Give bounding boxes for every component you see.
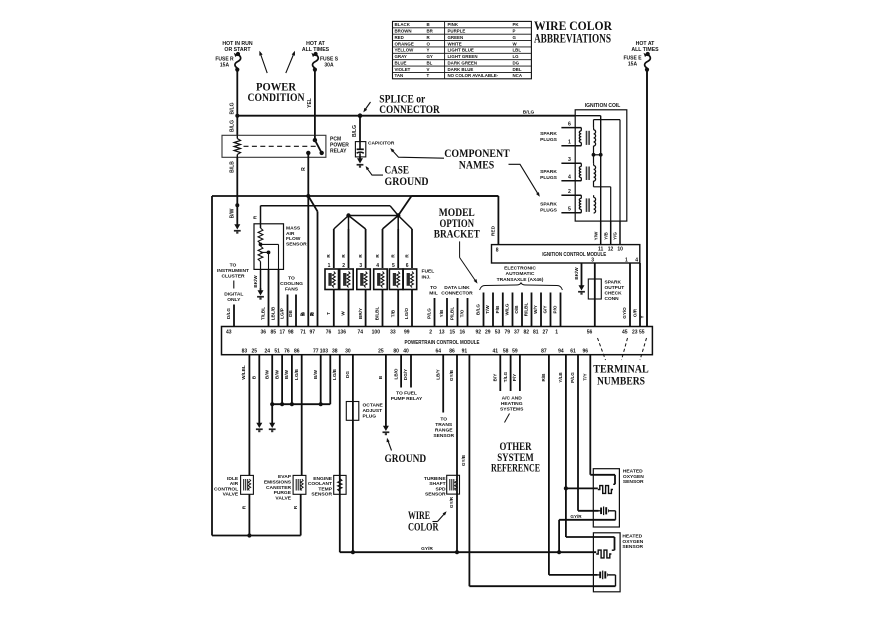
svg-text:25: 25 [378, 348, 384, 354]
wire B/W pin 77 [313, 355, 323, 407]
wires electronic automatic transaxle [484, 293, 561, 327]
svg-text:PLUGS: PLUGS [540, 208, 558, 214]
svg-text:4: 4 [568, 175, 571, 181]
svg-text:SENSOR: SENSOR [622, 544, 643, 550]
octane adjust plug [346, 402, 383, 421]
svg-text:98: 98 [288, 330, 294, 336]
bracket outline top rail [212, 196, 498, 536]
svg-text:BK/W: BK/W [253, 275, 258, 288]
svg-text:VALVE: VALVE [275, 495, 291, 501]
svg-text:6: 6 [406, 263, 409, 269]
coil winding unit 2 [579, 163, 595, 181]
spark plug stubs pins 3/4 [561, 157, 581, 181]
relay K1 PCM POWER RELAY [222, 135, 349, 157]
svg-text:BROWN: BROWN [395, 29, 412, 34]
svg-text:TEMP: TEMP [318, 486, 332, 492]
svg-text:SYSTEMS: SYSTEMS [500, 406, 524, 412]
svg-text:29: 29 [485, 330, 491, 336]
svg-text:GROUND: GROUND [385, 176, 429, 188]
svg-text:81: 81 [533, 330, 539, 336]
svg-text:T/W: T/W [485, 305, 490, 314]
svg-text:96: 96 [583, 348, 589, 354]
svg-text:GY/R: GY/R [449, 496, 454, 508]
svg-text:27: 27 [542, 330, 548, 336]
label A/C AND HEATING SYSTEMS [500, 395, 524, 422]
svg-text:41: 41 [493, 348, 499, 354]
svg-text:TO FUEL: TO FUEL [396, 390, 417, 396]
svg-text:OXYGEN: OXYGEN [622, 539, 643, 545]
svg-text:Y/B: Y/B [439, 309, 444, 317]
svg-text:LBL: LBL [513, 48, 522, 53]
svg-text:PLUG: PLUG [363, 414, 377, 420]
wires to data link connector [435, 298, 468, 327]
fuel injector 2 [340, 229, 354, 327]
svg-text:CHECK: CHECK [605, 291, 623, 297]
wire T/LBL MAF to PCM pin 36 [268, 269, 270, 326]
svg-text:DATA LINK: DATA LINK [444, 285, 470, 291]
svg-text:R/LBL: R/LBL [524, 303, 529, 317]
svg-text:LB/O: LB/O [393, 368, 398, 379]
wire YEL fuse S down to relay [307, 71, 315, 135]
wire color abbreviation table [393, 21, 532, 78]
svg-text:CANISTER: CANISTER [266, 485, 291, 491]
svg-text:FANS: FANS [285, 287, 299, 293]
svg-text:43: 43 [226, 330, 232, 336]
svg-text:ELECTRONIC: ELECTRONIC [504, 266, 536, 272]
svg-text:DB: DB [288, 310, 293, 317]
svg-text:Y: Y [427, 48, 430, 53]
svg-text:OUTPUT: OUTPUT [605, 285, 625, 291]
svg-text:LG/O: LG/O [404, 307, 409, 319]
svg-text:4: 4 [376, 263, 379, 269]
svg-text:86: 86 [449, 348, 455, 354]
junction R wire at bracket top [306, 194, 310, 198]
svg-text:GY/O: GY/O [622, 307, 627, 319]
svg-text:LG/B: LG/B [294, 368, 299, 380]
spark output check connector [588, 279, 624, 302]
fuel injector 3 [357, 229, 371, 327]
fuel injector 6 [403, 229, 417, 327]
wire DB to PCM pin 98 [295, 295, 297, 327]
svg-text:CONDITION: CONDITION [248, 92, 306, 104]
svg-text:TERMINAL: TERMINAL [593, 364, 649, 376]
svg-text:BK/W: BK/W [574, 267, 579, 280]
svg-text:56: 56 [587, 330, 593, 336]
svg-text:71: 71 [300, 330, 306, 336]
svg-text:WIRE: WIRE [408, 510, 430, 522]
svg-text:92: 92 [475, 330, 481, 336]
svg-text:O: O [427, 41, 431, 46]
junction injector supply B [396, 213, 400, 217]
svg-text:B/LG: B/LG [230, 120, 236, 132]
label TO TRANS RANGE SENSOR [433, 417, 454, 440]
svg-text:GY/R: GY/R [421, 546, 433, 552]
wire B/W pin 76 [284, 355, 294, 407]
fuel injector 5 [389, 229, 403, 327]
svg-text:2: 2 [342, 263, 345, 269]
svg-text:YELLOW: YELLOW [395, 48, 415, 53]
svg-text:MASS: MASS [286, 226, 301, 232]
svg-text:TURBINE: TURBINE [424, 476, 446, 482]
svg-text:Y/B: Y/B [603, 231, 608, 239]
wire R relay output down to PCM pin 71 [300, 153, 308, 327]
heated oxygen sensor 2 (rear) [593, 533, 643, 592]
svg-text:3: 3 [568, 157, 571, 163]
svg-text:24: 24 [264, 348, 270, 354]
svg-text:NO COLOR AVAILABLE-: NO COLOR AVAILABLE- [448, 73, 499, 78]
svg-text:GREEN: GREEN [448, 35, 464, 40]
svg-text:T: T [326, 312, 331, 315]
svg-text:PK: PK [513, 22, 520, 27]
svg-text:Y/W: Y/W [593, 231, 598, 240]
svg-text:30A: 30A [324, 63, 334, 69]
svg-text:TO: TO [230, 263, 237, 269]
svg-text:P: P [513, 29, 516, 34]
svg-text:B/W: B/W [264, 369, 269, 379]
ground below relay coil [236, 222, 238, 226]
wire BK/W ICM case ground [574, 263, 582, 283]
engine coolant temp sensor [308, 475, 346, 497]
svg-text:2: 2 [568, 189, 571, 195]
svg-text:EVAP: EVAP [278, 474, 292, 480]
svg-text:CAPICITOR: CAPICITOR [368, 141, 395, 147]
svg-text:DARK GREEN: DARK GREEN [448, 60, 478, 65]
svg-text:B/LBL: B/LBL [375, 307, 380, 321]
wire GY/B pin 86b through turbine speed sensor [449, 355, 457, 553]
svg-text:ENGINE: ENGINE [313, 476, 332, 482]
fuse E 15A [623, 52, 650, 72]
wire GY/R HO2S1 return to rail [559, 511, 615, 552]
svg-text:RED: RED [491, 225, 497, 236]
wire branch to PCM pin 97 [308, 196, 317, 327]
svg-text:ALL TIMES: ALL TIMES [631, 47, 659, 53]
wires B/Y T/LG P/Y pins 41 58 59 to A/C [493, 355, 520, 391]
svg-text:YEL: YEL [307, 98, 313, 108]
svg-text:P/Y: P/Y [512, 374, 517, 381]
svg-text:16: 16 [459, 330, 465, 336]
svg-text:W: W [341, 311, 346, 316]
label HOT AT ALL TIMES (right) [631, 41, 659, 53]
svg-text:LB/Y: LB/Y [435, 369, 440, 379]
svg-text:NUMBERS: NUMBERS [597, 376, 645, 388]
turbine shaft speed sensor [424, 475, 460, 497]
svg-text:SENSOR: SENSOR [425, 492, 446, 498]
svg-text:GY/B: GY/B [449, 369, 454, 381]
label GROUND with leader [385, 437, 427, 465]
svg-text:W/Y: W/Y [533, 305, 538, 314]
svg-text:B/LG: B/LG [230, 102, 236, 114]
wire R/B pin 87 to HO2S2 sense [541, 355, 598, 575]
label COMPONENT NAMES [444, 148, 510, 172]
wire DG pin 30 through octane plug [345, 355, 353, 553]
junction injector supply A [346, 213, 350, 217]
label HOT IN RUN OR START [222, 41, 253, 53]
label TO COOLING FANS [280, 276, 303, 293]
svg-text:SHAFT: SHAFT [429, 481, 445, 487]
svg-text:GY/B: GY/B [461, 454, 466, 466]
svg-text:G/Y: G/Y [543, 306, 548, 314]
svg-text:GRAY: GRAY [395, 54, 407, 59]
svg-text:12: 12 [608, 247, 614, 253]
wire LG/B pin 86 to evap purge valve [294, 355, 302, 476]
svg-text:30: 30 [345, 348, 351, 354]
label ELECTRONIC AUTOMATIC TRANSAXLE (AX46) [497, 266, 544, 283]
svg-text:W/LBL: W/LBL [241, 365, 246, 380]
title WIRE COLOR ABBREVIATIONS [534, 19, 613, 46]
svg-text:83: 83 [242, 348, 248, 354]
capacitor C1 [352, 116, 395, 157]
wire O/R ICM pin 4 to PCM pin 23 [633, 263, 641, 327]
wire LB/Y pin 64 to trans range sensor [435, 355, 443, 413]
svg-text:T/LBL: T/LBL [261, 307, 266, 320]
svg-text:1: 1 [625, 257, 628, 263]
brace over transaxle wires [480, 283, 563, 291]
svg-text:RELAY: RELAY [330, 149, 347, 155]
svg-text:6: 6 [568, 121, 571, 127]
svg-text:COLOR: COLOR [408, 522, 439, 534]
svg-text:B/LG: B/LG [352, 125, 358, 137]
svg-text:1: 1 [555, 330, 558, 336]
svg-text:SENSOR: SENSOR [623, 479, 644, 485]
svg-text:P/LG: P/LG [427, 308, 432, 319]
spark plug stubs pins 6/1 [561, 121, 581, 145]
ground below ICM [581, 283, 583, 287]
supply rail to injectors [261, 206, 399, 216]
svg-text:TAN: TAN [395, 73, 404, 78]
label POWER CONDITION [248, 82, 306, 104]
svg-text:SENSOR: SENSOR [433, 433, 454, 439]
svg-text:76: 76 [326, 330, 332, 336]
svg-text:B/LB: B/LB [230, 161, 236, 173]
svg-text:TO: TO [440, 417, 447, 423]
svg-text:CONTROL: CONTROL [214, 486, 238, 492]
fuel injector 1 [325, 229, 339, 327]
svg-text:NAMES: NAMES [459, 159, 495, 171]
svg-text:AUTOMATIC: AUTOMATIC [506, 271, 535, 277]
svg-text:D/LG: D/LG [226, 308, 231, 319]
svg-text:VALVE: VALVE [223, 492, 239, 498]
svg-text:DARK BLUE: DARK BLUE [448, 67, 474, 72]
svg-text:R/B: R/B [541, 373, 546, 382]
svg-text:PINK: PINK [448, 22, 459, 27]
wire GY/B pin 91 to rear oxygen sensor [461, 355, 469, 587]
svg-text:RANGE: RANGE [435, 428, 453, 434]
svg-text:94: 94 [558, 348, 564, 354]
svg-text:P/LG: P/LG [570, 372, 575, 383]
wire LBL/B MAF to PCM pin 85 [278, 269, 280, 326]
svg-text:BL: BL [427, 60, 433, 65]
svg-text:FUEL: FUEL [422, 269, 435, 275]
svg-text:R: R [253, 215, 259, 219]
case ground symbol under capacitor [359, 157, 361, 160]
svg-text:91: 91 [462, 348, 468, 354]
svg-text:SPARK: SPARK [540, 202, 557, 208]
svg-text:DBL: DBL [513, 67, 522, 72]
label CASE GROUND [364, 164, 428, 188]
mass air flow sensor B1 [253, 206, 308, 270]
svg-text:R: R [301, 167, 307, 171]
svg-text:SPARK: SPARK [540, 131, 557, 137]
fuse S 30A [310, 52, 339, 72]
ignition control module U2 [492, 245, 640, 264]
svg-text:ORANGE: ORANGE [395, 41, 414, 46]
svg-text:3: 3 [591, 257, 594, 263]
svg-text:O/B: O/B [514, 305, 519, 314]
wire D/LG to PCM pin 43 [233, 305, 235, 327]
svg-text:P/LBL: P/LBL [450, 307, 455, 320]
svg-text:B/W: B/W [274, 369, 279, 379]
svg-text:IGNITION COIL: IGNITION COIL [585, 103, 621, 109]
svg-text:T/Y: T/Y [583, 373, 588, 380]
svg-text:WHITE: WHITE [448, 41, 462, 46]
svg-text:13: 13 [439, 330, 445, 336]
svg-text:GY/R: GY/R [570, 514, 582, 519]
PCM bottom pin numbers [242, 348, 589, 354]
label SPARK PLUGS x3 [540, 131, 558, 214]
svg-text:86: 86 [294, 348, 300, 354]
svg-text:ADJUST: ADJUST [363, 408, 383, 414]
svg-text:1: 1 [568, 140, 571, 146]
label WIRE COLOR with leader [408, 510, 448, 534]
label FUEL INJ. [422, 269, 435, 281]
ground tie rail [272, 403, 330, 405]
svg-text:LG/B: LG/B [332, 368, 337, 380]
svg-text:TRANS: TRANS [435, 422, 453, 428]
wire P/LG pin 61 to HO2S1 sense [570, 355, 598, 511]
svg-text:TRANSAXLE (AX46): TRANSAXLE (AX46) [497, 277, 544, 283]
svg-text:SPARK: SPARK [605, 280, 622, 286]
svg-text:INJ.: INJ. [422, 274, 432, 280]
svg-text:POWERTRAIN CONTROL MODULE: POWERTRAIN CONTROL MODULE [405, 340, 481, 346]
svg-text:17: 17 [279, 330, 285, 336]
svg-text:LIGHT BLUE: LIGHT BLUE [448, 48, 474, 53]
svg-text:BR/Y: BR/Y [358, 308, 363, 319]
svg-text:58: 58 [503, 348, 509, 354]
svg-text:CONN: CONN [605, 296, 620, 302]
svg-text:AIR: AIR [286, 231, 295, 237]
svg-text:GY: GY [427, 54, 433, 59]
wire B/LG fuse R down to relay [230, 71, 238, 135]
svg-text:Y/G: Y/G [613, 232, 618, 240]
svg-text:11: 11 [598, 247, 604, 253]
svg-text:G: G [513, 35, 517, 40]
wire HO2S2 return to pin 91 [469, 575, 615, 586]
wire GY/R ground rail to oxygen sensors [340, 546, 596, 554]
svg-text:Y/LB: Y/LB [558, 372, 563, 383]
svg-text:10: 10 [617, 247, 623, 253]
svg-text:LG/P: LG/P [280, 308, 285, 319]
svg-text:BLUE: BLUE [395, 60, 407, 65]
svg-text:P/B: P/B [495, 305, 500, 313]
svg-text:100: 100 [372, 330, 381, 336]
svg-text:SPD: SPD [436, 486, 447, 492]
svg-text:BR: BR [427, 29, 434, 34]
svg-text:VIOLET: VIOLET [395, 67, 411, 72]
wire W/LBL pin 83 to idle air control valve [241, 355, 249, 476]
wire ICM pin 3 to PCM pin 56 [594, 263, 596, 327]
svg-text:PLUGS: PLUGS [540, 137, 558, 143]
label TO FUEL PUMP RELAY [391, 390, 423, 402]
svg-text:SPARK: SPARK [540, 169, 557, 175]
svg-text:TO: TO [430, 285, 437, 291]
svg-text:COMPONENT: COMPONENT [444, 148, 510, 160]
svg-text:COOLING: COOLING [280, 281, 303, 287]
svg-text:B: B [427, 22, 430, 27]
svg-text:BRACKET: BRACKET [434, 229, 480, 241]
svg-text:TO: TO [288, 276, 295, 282]
svg-text:136: 136 [338, 330, 347, 336]
svg-text:B/LG: B/LG [476, 304, 481, 315]
svg-text:B/LG: B/LG [523, 110, 535, 116]
svg-text:IGNITION CONTROL MODULE: IGNITION CONTROL MODULE [542, 252, 607, 258]
svg-text:T/B: T/B [390, 309, 395, 317]
svg-text:33: 33 [390, 330, 396, 336]
wire B/LB relay coil to ground [229, 157, 239, 222]
svg-text:RED: RED [395, 35, 404, 40]
wire DG/Y pin 40 to fuel pump relay [403, 355, 411, 388]
svg-text:25: 25 [252, 348, 258, 354]
label TO INSTRUMENT CLUSTER [217, 263, 249, 304]
svg-text:2: 2 [429, 330, 432, 336]
spark plug stubs pins 2/5 [561, 189, 581, 213]
svg-text:AIR: AIR [230, 481, 239, 487]
label HOT AT ALL TIMES [302, 41, 330, 53]
splice dot on B/LG bus [358, 113, 363, 118]
leader arrow to HOT IN RUN [258, 50, 267, 73]
label OTHER SYSTEM REFERENCE [491, 441, 540, 475]
heated oxygen sensor 1 (front) [593, 469, 644, 528]
label DATA LINK CONNECTOR [441, 285, 473, 297]
svg-text:V: V [427, 67, 430, 72]
wire LG/B pin 38 through coolant sensor [332, 355, 340, 553]
injector supply fan-out [334, 216, 412, 230]
svg-text:74: 74 [358, 330, 364, 336]
svg-text:T: T [427, 73, 430, 78]
svg-text:1: 1 [328, 263, 331, 269]
svg-text:REFERENCE: REFERENCE [491, 463, 540, 475]
svg-text:IDLE: IDLE [227, 476, 239, 482]
svg-text:DG/Y: DG/Y [403, 369, 408, 380]
wire Y fuse E down to PCM pin 55 [639, 71, 647, 327]
svg-text:76: 76 [284, 348, 290, 354]
wire LB/O pin 80 to fuel pump relay [393, 355, 401, 388]
wire B/LG bus to ignition coil [237, 110, 575, 116]
svg-text:BLACK: BLACK [395, 22, 411, 27]
svg-text:DIGITAL: DIGITAL [224, 292, 243, 298]
svg-text:LG: LG [513, 54, 520, 59]
svg-text:DG: DG [345, 371, 350, 378]
svg-text:OXYGEN: OXYGEN [623, 474, 644, 480]
fuse R 15A [215, 52, 240, 72]
junction idle valve return [247, 533, 251, 537]
PCM top pin numbers and wire color labels [226, 303, 645, 336]
svg-text:87: 87 [541, 348, 547, 354]
svg-text:HEATING: HEATING [501, 401, 523, 407]
svg-text:A/C AND: A/C AND [502, 395, 523, 401]
svg-text:NCA: NCA [513, 73, 523, 78]
svg-text:59: 59 [512, 348, 518, 354]
svg-text:61: 61 [570, 348, 576, 354]
svg-text:80: 80 [393, 348, 399, 354]
svg-text:79: 79 [504, 330, 510, 336]
wire BK/W MAF ground [253, 262, 261, 289]
svg-text:64: 64 [435, 348, 441, 354]
svg-text:23: 23 [632, 330, 638, 336]
idle air control valve [214, 475, 253, 535]
wire B pin 25b to ground [378, 355, 386, 424]
svg-text:3: 3 [359, 263, 362, 269]
svg-text:CONNECTOR: CONNECTOR [379, 104, 440, 116]
